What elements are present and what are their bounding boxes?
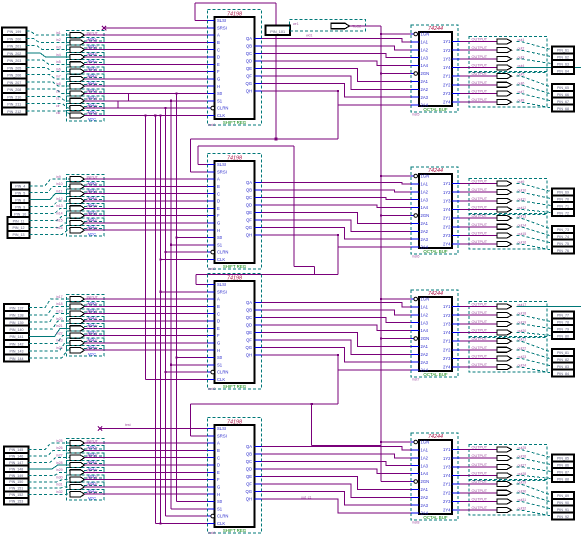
U2 pin QF bbox=[255, 219, 262, 221]
input primitive in28 bbox=[70, 462, 85, 467]
wire in1 to chip bbox=[85, 34, 208, 36]
input primitive in22 bbox=[70, 333, 85, 338]
output pin box PIN_92 bbox=[552, 513, 574, 520]
svg-text:2A1: 2A1 bbox=[421, 344, 429, 349]
svg-text:QG: QG bbox=[245, 81, 252, 86]
U3 pin CLRN bbox=[208, 371, 211, 373]
svg-text:1A2: 1A2 bbox=[421, 312, 429, 317]
svg-text:G: G bbox=[217, 341, 220, 346]
svg-text:1Y1: 1Y1 bbox=[443, 39, 451, 44]
wire net clr bbox=[27, 104, 71, 108]
wire clr to chip bbox=[85, 107, 208, 109]
U3 pin H bbox=[208, 349, 215, 351]
svg-text:CLRN: CLRN bbox=[217, 370, 228, 375]
output pin box PIN_79 bbox=[552, 325, 574, 332]
U7 pin 1A2 bbox=[411, 314, 419, 316]
svg-text:CLRN: CLRN bbox=[217, 250, 228, 255]
input pin box PIN_10 bbox=[11, 210, 30, 217]
U3 pin SRSI bbox=[208, 291, 215, 293]
svg-text:QF: QF bbox=[246, 218, 252, 223]
wire out15 to pin box bbox=[517, 235, 553, 243]
input primitive in4 bbox=[70, 54, 85, 59]
U3 pin E bbox=[208, 327, 215, 329]
svg-text:SLSI: SLSI bbox=[217, 162, 226, 167]
svg-text:QC: QC bbox=[246, 459, 252, 464]
svg-text:in4: in4 bbox=[56, 53, 61, 57]
wire in6 to chip bbox=[85, 71, 208, 73]
svg-text:PIN_202: PIN_202 bbox=[7, 52, 21, 56]
svg-text:SRSI: SRSI bbox=[217, 289, 227, 294]
input primitive in11 bbox=[70, 191, 85, 196]
U1 pin QD bbox=[255, 60, 262, 62]
svg-text:QB: QB bbox=[246, 452, 252, 457]
wire U2 QH to U6 2A4 bbox=[262, 235, 412, 247]
svg-text:QD: QD bbox=[246, 59, 252, 64]
svg-text:D: D bbox=[217, 463, 220, 468]
output pin box PIN_81 bbox=[552, 349, 574, 356]
wire in5 to chip bbox=[85, 63, 208, 65]
svg-text:1Y4: 1Y4 bbox=[443, 207, 451, 212]
input pin box PIN_200 bbox=[2, 35, 27, 42]
U5 pin 1Y2 bbox=[452, 49, 460, 51]
wire to output out21 bbox=[460, 340, 497, 342]
chain wire vertical to U2 SLSI bbox=[197, 146, 199, 165]
input primitive in1 bbox=[70, 33, 85, 38]
svg-text:PIN_81: PIN_81 bbox=[557, 351, 569, 355]
svg-text:OUTPUT: OUTPUT bbox=[472, 354, 488, 358]
svg-text:PIN_13: PIN_13 bbox=[13, 233, 25, 237]
selection box output group 1.2 bbox=[469, 71, 547, 107]
svg-text:QC: QC bbox=[246, 315, 252, 320]
svg-text:OUTPUT: OUTPUT bbox=[472, 38, 488, 42]
wire net in30 bbox=[29, 480, 71, 482]
svg-text:PIN_149: PIN_149 bbox=[9, 474, 23, 478]
U1 pin F bbox=[208, 71, 215, 73]
svg-text:SHIFT REG: SHIFT REG bbox=[223, 264, 247, 269]
svg-text:1A1: 1A1 bbox=[421, 305, 429, 310]
U6 pin 1Y3 bbox=[452, 200, 460, 202]
chain z-step vertical rows2-3 bbox=[313, 266, 315, 274]
U2 pin QH bbox=[255, 234, 262, 236]
svg-text:C: C bbox=[217, 47, 220, 52]
wire out29 to pin box bbox=[517, 484, 553, 495]
svg-text:PIN_86: PIN_86 bbox=[557, 464, 569, 468]
wire U4 QC to U8 1A3 bbox=[262, 462, 412, 466]
wire S1 tap to U2 bbox=[171, 244, 208, 246]
input primitive in31 bbox=[70, 484, 85, 489]
svg-text:OUTPUT: OUTPUT bbox=[472, 223, 488, 227]
svg-text:2GN: 2GN bbox=[421, 213, 430, 218]
input primitive s0 bbox=[70, 91, 85, 96]
svg-text:PIN_210: PIN_210 bbox=[7, 95, 21, 99]
svg-text:OUTPUT: OUTPUT bbox=[472, 98, 488, 102]
wire in17 to chip bbox=[85, 298, 208, 300]
svg-text:s1: s1 bbox=[56, 97, 60, 101]
selection box input s0 bbox=[67, 89, 105, 99]
svg-text:CLK: CLK bbox=[217, 521, 225, 526]
U6 pin 2Y3 bbox=[452, 234, 460, 236]
U8 pin 2A4 bbox=[411, 512, 419, 514]
svg-text:OUTPUT: OUTPUT bbox=[472, 489, 488, 493]
selection box U5 bbox=[411, 25, 458, 112]
svg-text:E: E bbox=[217, 206, 220, 211]
svg-text:OUTPUT: OUTPUT bbox=[472, 463, 488, 467]
input pin box PIN_152 bbox=[4, 491, 29, 497]
U7 pin 2Y4 bbox=[452, 366, 460, 368]
U2 pin SLSI bbox=[208, 164, 215, 166]
chain wire vertical to U4 SRSI bbox=[190, 404, 192, 436]
U1 pin S0 bbox=[208, 93, 215, 95]
shift register U1 74198 body bbox=[215, 17, 255, 119]
wire enable tap to U8 1GN bbox=[381, 441, 411, 443]
svg-text:2Y3: 2Y3 bbox=[443, 356, 451, 361]
shift register U4 74198 body bbox=[215, 425, 255, 527]
svg-text:OUTPUT: OUTPUT bbox=[472, 506, 488, 510]
selection box input in9 bbox=[67, 174, 105, 184]
wire net in5 bbox=[27, 60, 71, 64]
wire CLRN tap to U2 bbox=[166, 251, 208, 253]
input pin box PIN_138 bbox=[4, 311, 29, 318]
svg-text:2Y4: 2Y4 bbox=[443, 508, 451, 513]
svg-text:B: B bbox=[217, 40, 220, 45]
wire net in8 bbox=[27, 82, 71, 86]
svg-text:PIN_150: PIN_150 bbox=[9, 480, 23, 484]
svg-text:PIN_148: PIN_148 bbox=[9, 467, 23, 471]
output pin box PIN_86 bbox=[552, 461, 574, 468]
wire S1 tap to U4 bbox=[171, 508, 208, 510]
svg-text:2A4: 2A4 bbox=[421, 368, 429, 373]
wire in22 to chip bbox=[85, 335, 208, 337]
wire net in31 bbox=[29, 487, 71, 488]
svg-text:PIN_205: PIN_205 bbox=[7, 66, 21, 70]
U4 pin S0 bbox=[208, 501, 215, 503]
U4 pin G bbox=[208, 486, 215, 488]
wire in25 to chip bbox=[85, 442, 208, 444]
wire S1 tap to U3 bbox=[171, 364, 208, 366]
wire in3 to chip bbox=[85, 49, 208, 51]
wire in14 to chip bbox=[85, 215, 208, 217]
U8 pin 1Y3 bbox=[452, 466, 460, 468]
svg-text:SLSI: SLSI bbox=[217, 18, 226, 23]
U5 pin 2A2 bbox=[411, 88, 419, 90]
svg-text:2A3: 2A3 bbox=[421, 503, 429, 508]
output pin box PIN_85 bbox=[552, 454, 574, 461]
svg-text:C: C bbox=[217, 455, 220, 460]
wire enable tap to U7 1GN bbox=[381, 298, 411, 300]
svg-text:H: H bbox=[217, 348, 220, 353]
wire out3 to pin box bbox=[517, 59, 553, 64]
wire into U1 SLSI pin bbox=[195, 20, 208, 22]
svg-text:PIN_145: PIN_145 bbox=[9, 448, 23, 452]
U1 pin B bbox=[208, 41, 215, 43]
svg-text:PIN_64: PIN_64 bbox=[557, 69, 569, 73]
U3 pin QD bbox=[255, 324, 262, 326]
U2 pin H bbox=[208, 229, 215, 231]
wire clk to chip bbox=[85, 114, 208, 116]
U2 pin B bbox=[208, 185, 215, 187]
output pin box PIN_87 bbox=[552, 468, 574, 475]
U1 pin QH bbox=[255, 90, 262, 92]
selection box input in28 bbox=[67, 460, 105, 470]
wire net in18 bbox=[29, 306, 70, 314]
svg-text:S0: S0 bbox=[217, 235, 223, 240]
input primitive in20 bbox=[70, 318, 85, 323]
wire to output out14 bbox=[460, 226, 497, 228]
wire U3 QF to U7 2A2 bbox=[262, 340, 412, 354]
wire to output out12 bbox=[460, 208, 497, 210]
open wire to U1 SRSI bbox=[102, 26, 106, 30]
wire U2 QD to U6 1A4 bbox=[262, 205, 412, 208]
wire to output out19 bbox=[460, 323, 497, 325]
svg-text:74244: 74244 bbox=[428, 291, 443, 297]
output pin box PIN_69 bbox=[552, 188, 574, 195]
U7 pin 2A2 bbox=[411, 353, 419, 355]
svg-text:in6: in6 bbox=[56, 67, 61, 71]
svg-text:PIN_84: PIN_84 bbox=[557, 372, 569, 376]
shift register U2 74198 body bbox=[215, 161, 255, 263]
wire U2 QF to U6 2A2 bbox=[262, 220, 412, 231]
svg-text:in9: in9 bbox=[56, 175, 61, 179]
svg-text:PIN_82: PIN_82 bbox=[557, 358, 569, 362]
wire to output out10 bbox=[460, 191, 497, 193]
selection box input in12 bbox=[67, 196, 105, 206]
U2 pin C bbox=[208, 193, 215, 195]
svg-text:1A4: 1A4 bbox=[421, 63, 429, 68]
U4 pin B bbox=[208, 449, 215, 451]
selection box input in26 bbox=[67, 446, 105, 456]
wire to output out7 bbox=[460, 92, 497, 94]
wire out30 to pin box bbox=[517, 493, 553, 503]
wire vertical to U1 SLSI bbox=[194, 3, 196, 21]
selection box U6 bbox=[411, 167, 458, 254]
input primitive in29 bbox=[70, 470, 85, 475]
U1 pin CLRN bbox=[208, 107, 211, 109]
svg-text:2Y2: 2Y2 bbox=[443, 224, 451, 229]
wire U1 QG to U5 2A3 bbox=[262, 84, 412, 98]
svg-text:S0: S0 bbox=[217, 91, 223, 96]
svg-text:1Y3: 1Y3 bbox=[443, 321, 451, 326]
svg-text:OUTPUT: OUTPUT bbox=[472, 311, 488, 315]
input pin box PIN_147 bbox=[4, 459, 29, 465]
selection box input in19 bbox=[67, 309, 105, 319]
svg-text:QE: QE bbox=[246, 474, 252, 479]
U5 pin 1Y1 bbox=[452, 41, 460, 43]
svg-text:s0: s0 bbox=[56, 89, 60, 93]
output pin box PIN_72 bbox=[552, 209, 574, 216]
control rail CLK x155.3 (row1->row4) bbox=[154, 115, 156, 523]
svg-text:CLRN: CLRN bbox=[217, 514, 228, 519]
svg-text:PIN_65: PIN_65 bbox=[557, 86, 569, 90]
svg-text:OUTPUT: OUTPUT bbox=[472, 346, 488, 350]
U3 pin CLK bbox=[208, 378, 215, 380]
svg-text:OCTAL BUF: OCTAL BUF bbox=[423, 107, 447, 112]
svg-text:PIN_68: PIN_68 bbox=[557, 107, 569, 111]
svg-text:SHIFT REG: SHIFT REG bbox=[223, 120, 247, 125]
selection box input in27 bbox=[67, 453, 105, 463]
wire out13 to pin box bbox=[517, 218, 553, 229]
svg-text:PIN_203: PIN_203 bbox=[7, 59, 21, 63]
wire net in32 bbox=[29, 493, 71, 495]
input primitive in25 bbox=[70, 441, 85, 446]
selection box input in15 bbox=[67, 218, 105, 228]
U7 pin 1GN bbox=[411, 298, 414, 300]
svg-text:OUTPUT: OUTPUT bbox=[472, 303, 488, 307]
wire out12 to pin box bbox=[517, 209, 553, 212]
svg-text:PIN_138: PIN_138 bbox=[10, 314, 24, 318]
wire out10 to pin box bbox=[517, 192, 553, 199]
svg-text:OUTPUT: OUTPUT bbox=[472, 214, 488, 218]
wire in23 to chip bbox=[85, 342, 208, 344]
selection box input in29 bbox=[67, 468, 105, 478]
svg-text:2A2: 2A2 bbox=[421, 495, 429, 500]
input primitive in32 bbox=[70, 492, 85, 497]
svg-text:OUTPUT: OUTPUT bbox=[472, 471, 488, 475]
wire in29 to chip bbox=[85, 471, 208, 473]
selection box input in24 bbox=[67, 346, 105, 356]
wire out28 to pin box bbox=[517, 475, 553, 478]
chain wire vertical to U2 SRSI bbox=[190, 139, 192, 172]
wire in15 to chip bbox=[85, 222, 208, 224]
svg-text:1Y1: 1Y1 bbox=[443, 447, 451, 452]
svg-text:OUTPUT: OUTPUT bbox=[472, 363, 488, 367]
input primitive in6 bbox=[70, 69, 85, 74]
wire net in20 bbox=[29, 321, 70, 329]
svg-text:QE: QE bbox=[246, 66, 252, 71]
U6 pin 1A2 bbox=[411, 191, 419, 193]
svg-text:F: F bbox=[217, 213, 220, 218]
svg-text:OUTPUT: OUTPUT bbox=[472, 46, 488, 50]
U5 pin 1GN bbox=[411, 33, 414, 35]
svg-text:PIN_78: PIN_78 bbox=[557, 321, 569, 325]
input primitive in14 bbox=[70, 213, 85, 218]
svg-text:2GN: 2GN bbox=[421, 336, 430, 341]
input pin box PIN_8 bbox=[11, 196, 30, 203]
U8 pin 1A1 bbox=[411, 449, 419, 451]
U7 pin 2Y3 bbox=[452, 357, 460, 359]
U3 pin QA bbox=[255, 302, 262, 304]
wire into U2 SRSI bbox=[191, 171, 208, 173]
wire U3 QD to U7 1A4 bbox=[262, 325, 412, 331]
input pin box PIN_199 bbox=[2, 28, 27, 35]
wire U4 QA to U8 1A1 bbox=[262, 447, 412, 450]
wire to output out24 bbox=[460, 366, 497, 368]
svg-text:PIN_101: PIN_101 bbox=[270, 30, 285, 34]
svg-text:OUTPUT: OUTPUT bbox=[472, 180, 488, 184]
U6 pin 2GN bbox=[411, 215, 414, 217]
wire U2 QB to U6 1A2 bbox=[262, 190, 412, 192]
input pin box PIN_148 bbox=[4, 466, 29, 472]
svg-text:wr1: wr1 bbox=[293, 22, 299, 26]
svg-text:in13: in13 bbox=[56, 204, 63, 208]
svg-text:CLRN: CLRN bbox=[217, 106, 228, 111]
svg-text:OUTPUT: OUTPUT bbox=[472, 497, 488, 501]
wire jog x118 bbox=[117, 101, 119, 108]
wire into U4 SRSI bbox=[191, 435, 208, 437]
wire to output out17 bbox=[460, 306, 497, 308]
svg-text:SRSI: SRSI bbox=[217, 25, 227, 30]
wire out17 to pin box bbox=[517, 306, 582, 308]
svg-text:QD: QD bbox=[246, 203, 252, 208]
svg-text:QH: QH bbox=[246, 89, 252, 94]
svg-text:inst4: inst4 bbox=[208, 531, 215, 535]
svg-text:2A2: 2A2 bbox=[421, 87, 429, 92]
output pin box PIN_78 bbox=[552, 318, 574, 325]
svg-text:PIN_85: PIN_85 bbox=[557, 457, 569, 461]
svg-text:PIN_66: PIN_66 bbox=[557, 93, 569, 97]
svg-text:PIN_212: PIN_212 bbox=[7, 110, 21, 114]
input primitive in21 bbox=[70, 326, 85, 331]
wire U1 QC to U5 1A3 bbox=[262, 54, 412, 58]
input pin box PIN_210 bbox=[2, 93, 27, 100]
svg-text:2A4: 2A4 bbox=[421, 103, 429, 108]
U7 pin 2GN bbox=[411, 338, 414, 340]
wire enable tap to U5 1GN bbox=[381, 33, 411, 35]
selection box input in23 bbox=[67, 338, 105, 348]
wire CLK tap to U4 bbox=[155, 522, 207, 524]
svg-text:H: H bbox=[217, 228, 220, 233]
svg-text:H: H bbox=[217, 84, 220, 89]
wire to output out4 bbox=[460, 66, 497, 68]
wire out20 to pin box bbox=[517, 332, 553, 335]
wire CLRN tap to U4 bbox=[166, 515, 208, 517]
U5 pin 1Y4 bbox=[452, 66, 460, 68]
svg-text:OUTPUT: OUTPUT bbox=[472, 205, 488, 209]
input primitive in2 bbox=[70, 40, 85, 45]
svg-text:F: F bbox=[217, 477, 220, 482]
wire CLK tap to U3 bbox=[146, 378, 208, 380]
wire in20 to chip bbox=[85, 320, 208, 322]
wire U3 QE to U7 2A1 bbox=[262, 333, 412, 347]
svg-text:S1: S1 bbox=[217, 98, 223, 103]
wire out25 to pin box bbox=[517, 450, 553, 458]
U1 pin D bbox=[208, 56, 215, 58]
U1 pin E bbox=[208, 63, 215, 65]
wire enable tap to U5 2GN bbox=[381, 73, 411, 75]
wire net clk bbox=[27, 111, 72, 115]
wire in16 to chip bbox=[85, 229, 208, 231]
svg-text:G: G bbox=[217, 485, 220, 490]
svg-text:1GN: 1GN bbox=[421, 174, 430, 179]
U2 pin G bbox=[208, 222, 215, 224]
U6 pin 1Y4 bbox=[452, 208, 460, 210]
wire U3 QC to U7 1A3 bbox=[262, 318, 412, 323]
U4 pin QF bbox=[255, 483, 262, 485]
input pin box PIN_201 bbox=[2, 42, 27, 49]
chain wire vertical to U3 SLSI bbox=[195, 275, 197, 285]
U3 pin B bbox=[208, 305, 215, 307]
svg-text:PIN_92: PIN_92 bbox=[557, 515, 569, 519]
svg-text:A: A bbox=[217, 177, 220, 182]
U1 pin CLK bbox=[208, 114, 215, 116]
U3 pin QG bbox=[255, 347, 262, 349]
input pin box PIN_146 bbox=[4, 453, 29, 459]
chain wire horizontal h2 rows1-2 bbox=[198, 145, 294, 147]
svg-text:OUTPUT: OUTPUT bbox=[472, 446, 488, 450]
input primitive in19 bbox=[70, 311, 85, 316]
U4 pin QB bbox=[255, 453, 262, 455]
wire net in21 bbox=[29, 328, 70, 336]
wire U1 QF to U5 2A2 bbox=[262, 76, 412, 89]
wire CLRN tap to U3 bbox=[166, 371, 208, 373]
input pin box PIN_5 bbox=[11, 189, 30, 196]
U2 pin QD bbox=[255, 204, 262, 206]
U5 pin 2A1 bbox=[411, 80, 419, 82]
svg-text:QB: QB bbox=[246, 44, 252, 49]
wire U3 QB to U7 1A2 bbox=[262, 310, 412, 315]
svg-text:PIN_87: PIN_87 bbox=[557, 470, 569, 474]
svg-text:QC: QC bbox=[246, 51, 252, 56]
wire to output out6 bbox=[460, 84, 497, 86]
